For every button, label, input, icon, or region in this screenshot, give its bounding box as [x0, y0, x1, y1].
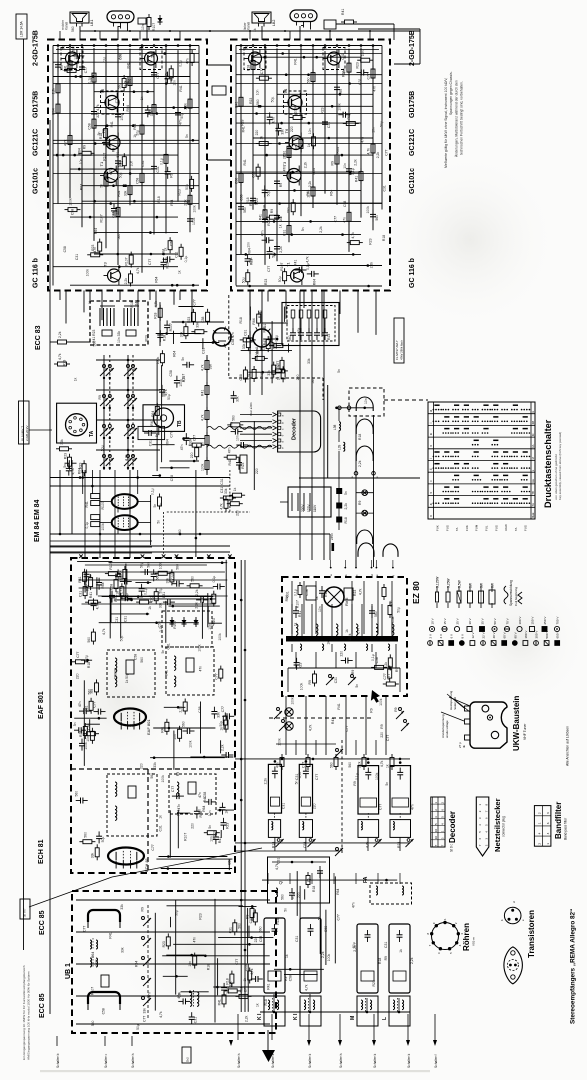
svg-text:5n: 5n: [344, 491, 348, 495]
svg-text:R107: R107: [152, 23, 156, 31]
svg-text:220: 220: [235, 510, 239, 516]
svg-text:C58: C58: [240, 194, 244, 200]
svg-text:LB1: LB1: [90, 20, 94, 26]
svg-text:C77: C77: [333, 216, 337, 222]
svg-text:2,2k: 2,2k: [303, 161, 307, 168]
svg-text:R41: R41: [228, 459, 232, 465]
svg-text:250 V: 250 V: [543, 617, 547, 625]
svg-text:C58: C58: [169, 370, 173, 376]
svg-text:C77: C77: [315, 774, 319, 780]
svg-text:R41: R41: [218, 999, 222, 1005]
svg-text:R107: R107: [169, 323, 173, 331]
svg-text:a: a: [429, 433, 433, 435]
svg-text:560: 560: [375, 215, 379, 221]
svg-text:10n: 10n: [208, 810, 212, 816]
svg-text:R9: R9: [170, 173, 174, 177]
svg-text:R107: R107: [100, 214, 104, 222]
svg-text:100k: 100k: [101, 523, 105, 531]
svg-text:1k: 1k: [148, 606, 152, 610]
svg-text:2 V: 2 V: [429, 634, 433, 639]
svg-text:V01-m: V01-m: [472, 937, 476, 946]
svg-text:220: 220: [290, 126, 294, 132]
svg-text:50µ: 50µ: [241, 277, 245, 283]
svg-text:R23: R23: [177, 189, 181, 195]
svg-text:2,2k: 2,2k: [263, 778, 267, 785]
svg-text:R18: R18: [239, 317, 243, 323]
svg-text:R107: R107: [102, 153, 106, 161]
svg-text:47n: 47n: [177, 993, 181, 999]
svg-text:1k: 1k: [285, 954, 289, 958]
svg-text:R41: R41: [203, 796, 207, 802]
svg-text:2,2k: 2,2k: [52, 88, 56, 95]
svg-text:2,2k: 2,2k: [370, 262, 374, 269]
svg-text:10n: 10n: [74, 54, 78, 60]
svg-text:T2: T2: [61, 45, 66, 50]
svg-text:33k: 33k: [224, 488, 228, 494]
svg-text:R9: R9: [128, 79, 132, 83]
svg-text:47n: 47n: [361, 137, 365, 143]
svg-text:100k: 100k: [95, 959, 99, 967]
svg-text:R9: R9: [98, 395, 102, 399]
svg-text:2: 2: [538, 812, 542, 814]
svg-text:100k: 100k: [161, 775, 165, 783]
svg-text:Schalter c: Schalter c: [104, 1053, 108, 1068]
svg-text:2: 2: [538, 843, 542, 845]
svg-text:Kanal: Kanal: [247, 22, 251, 30]
svg-text:4 V: 4 V: [439, 634, 443, 639]
svg-text:C58: C58: [170, 475, 174, 481]
svg-text:C31: C31: [75, 254, 79, 260]
svg-text:1k: 1k: [345, 629, 349, 633]
svg-text:KI: KI: [531, 433, 535, 436]
svg-text:R23: R23: [342, 71, 346, 77]
svg-text:4,7k: 4,7k: [380, 760, 384, 767]
svg-text:C31: C31: [103, 56, 107, 62]
svg-text:245V: 245V: [330, 533, 334, 540]
svg-text:a: a: [429, 503, 433, 505]
svg-text:Q: Q: [278, 881, 283, 885]
svg-text:TA: TA: [531, 503, 535, 506]
svg-text:50µ: 50µ: [271, 97, 275, 103]
svg-text:R41: R41: [127, 62, 131, 68]
svg-text:R64: R64: [336, 888, 340, 894]
svg-text:50µ: 50µ: [278, 276, 282, 282]
svg-text:R9: R9: [394, 707, 398, 711]
svg-text:5n: 5n: [294, 781, 298, 785]
svg-text:4,7k: 4,7k: [159, 1011, 163, 1018]
svg-text:560: 560: [93, 341, 97, 347]
svg-text:47n: 47n: [180, 444, 184, 450]
svg-text:2,2k: 2,2k: [226, 987, 230, 994]
svg-text:4,7k: 4,7k: [220, 503, 224, 510]
svg-text:C77: C77: [193, 299, 197, 305]
svg-text:R23: R23: [353, 590, 357, 596]
svg-text:R23: R23: [258, 312, 262, 318]
svg-text:C31: C31: [249, 257, 253, 263]
svg-text:R23: R23: [356, 62, 360, 68]
svg-text:10n: 10n: [371, 127, 375, 133]
svg-text:47n: 47n: [148, 992, 152, 998]
svg-text:C58 47n: C58 47n: [231, 332, 235, 345]
svg-text:0,1µ: 0,1µ: [160, 158, 164, 165]
svg-text:C58: C58: [136, 178, 140, 184]
svg-text:R41: R41: [294, 260, 298, 266]
svg-text:C77: C77: [83, 926, 87, 932]
svg-text:Bandfilter: Bandfilter: [554, 802, 563, 839]
svg-text:Schalter h: Schalter h: [131, 1053, 135, 1068]
svg-text:560: 560: [374, 611, 378, 617]
svg-text:GC 116 b: GC 116 b: [33, 258, 40, 288]
svg-text:10n: 10n: [247, 242, 251, 248]
svg-text:R18: R18: [382, 235, 386, 241]
svg-text:R64: R64: [313, 279, 317, 285]
svg-text:560: 560: [156, 575, 160, 581]
svg-text:C31: C31: [175, 251, 179, 257]
svg-text:560: 560: [120, 575, 124, 581]
svg-text:220: 220: [255, 130, 259, 136]
svg-text:C77: C77: [337, 914, 341, 920]
svg-text:R18: R18: [347, 113, 351, 119]
svg-text:47n: 47n: [228, 447, 232, 453]
svg-text:33k: 33k: [158, 602, 162, 608]
svg-text:2,2k: 2,2k: [179, 706, 183, 713]
svg-text:C31: C31: [167, 643, 171, 649]
svg-text:10: 10: [434, 829, 438, 833]
svg-text:47n: 47n: [179, 119, 183, 125]
svg-text:6: 6: [546, 822, 550, 824]
svg-text:R23: R23: [199, 913, 203, 919]
svg-text:Schalter h: Schalter h: [237, 1053, 241, 1068]
svg-text:FUK: FUK: [436, 525, 440, 531]
svg-text:5n: 5n: [73, 722, 77, 726]
svg-text:50µ: 50µ: [267, 191, 271, 197]
svg-text:220: 220: [96, 112, 100, 118]
svg-text:5n: 5n: [153, 504, 157, 508]
svg-text:C77: C77: [156, 72, 160, 78]
svg-text:C31: C31: [358, 78, 362, 84]
svg-text:560: 560: [238, 923, 242, 929]
svg-text:5n: 5n: [159, 503, 163, 507]
svg-text:K I: K I: [293, 1013, 299, 1020]
svg-text:1k: 1k: [277, 376, 281, 380]
svg-text:560: 560: [91, 1021, 95, 1027]
svg-text:R9: R9: [83, 145, 87, 149]
svg-text:10n: 10n: [208, 624, 212, 630]
svg-text:R64: R64: [285, 595, 289, 601]
svg-text:R9: R9: [268, 340, 272, 344]
svg-text:2,2k: 2,2k: [410, 957, 414, 964]
svg-text:220: 220: [76, 673, 80, 679]
svg-text:33k: 33k: [124, 190, 128, 196]
svg-text:2,2k: 2,2k: [248, 373, 252, 380]
svg-text:50µ: 50µ: [397, 607, 401, 613]
svg-text:220: 220: [340, 651, 344, 657]
svg-text:220: 220: [190, 452, 194, 458]
svg-text:R41: R41: [201, 390, 205, 396]
svg-text:R107: R107: [213, 830, 217, 838]
svg-text:1k: 1k: [130, 724, 134, 728]
svg-text:C77: C77: [385, 149, 389, 155]
svg-text:4,7k: 4,7k: [96, 603, 100, 610]
svg-text:10n: 10n: [235, 435, 239, 441]
svg-text:0,1µ: 0,1µ: [306, 263, 310, 270]
svg-text:FL M737 AM-7: FL M737 AM-7: [395, 340, 399, 360]
svg-text:33k: 33k: [236, 396, 240, 402]
svg-text:10n: 10n: [86, 736, 90, 742]
svg-text:R41: R41: [78, 576, 82, 582]
svg-text:C77: C77: [221, 706, 225, 712]
svg-text:C58: C58: [113, 673, 117, 679]
svg-text:a: a: [429, 410, 433, 412]
svg-text:2,2k: 2,2k: [195, 589, 199, 596]
svg-text:R23: R23: [241, 462, 245, 468]
svg-text:100k: 100k: [86, 269, 90, 277]
svg-text:1k: 1k: [260, 136, 264, 140]
svg-text:C77: C77: [76, 651, 80, 657]
svg-text:33k: 33k: [143, 1008, 147, 1014]
svg-text:110V: 110V: [313, 504, 317, 512]
svg-text:L38: L38: [333, 424, 337, 430]
svg-text:4,7k: 4,7k: [136, 267, 140, 274]
svg-text:25 V: 25 V: [456, 618, 460, 624]
svg-text:50µ: 50µ: [118, 173, 122, 179]
svg-text:10n 33k: 10n 33k: [117, 331, 121, 343]
svg-text:R64: R64: [162, 249, 166, 255]
svg-text:2,2k: 2,2k: [245, 1015, 249, 1022]
svg-text:R23: R23: [321, 107, 325, 113]
svg-text:St Vr7: St Vr7: [23, 908, 27, 917]
svg-text:T6: T6: [284, 128, 289, 133]
svg-text:MuE: MuE: [531, 512, 535, 518]
svg-text:50µ: 50µ: [380, 121, 384, 127]
svg-text:50µ: 50µ: [136, 1024, 140, 1030]
svg-text:R18: R18: [378, 958, 382, 964]
svg-text:C77: C77: [357, 628, 361, 634]
svg-text:100k: 100k: [291, 697, 295, 705]
svg-text:5n: 5n: [63, 464, 67, 468]
svg-text:2,2k: 2,2k: [321, 951, 325, 958]
svg-text:0,1µ: 0,1µ: [85, 522, 89, 529]
svg-text:560: 560: [348, 762, 352, 768]
svg-text:33k: 33k: [195, 322, 199, 328]
svg-text:Dr2: Dr2: [186, 1057, 190, 1062]
svg-text:K I: K I: [257, 1013, 263, 1020]
svg-text:1k: 1k: [278, 224, 282, 228]
svg-text:560: 560: [117, 234, 121, 240]
svg-text:ECC 85: ECC 85: [39, 910, 46, 935]
svg-text:47kV 290k flach: 47kV 290k flach: [400, 340, 404, 360]
svg-text:R9: R9: [351, 670, 355, 674]
svg-text:R9: R9: [187, 200, 191, 204]
svg-text:C31: C31: [115, 617, 119, 623]
svg-text:C58: C58: [391, 616, 395, 622]
svg-text:10n: 10n: [256, 90, 260, 96]
svg-text:0,25W: 0,25W: [447, 578, 451, 588]
svg-text:R64: R64: [94, 228, 98, 234]
svg-text:10n: 10n: [308, 128, 312, 134]
svg-text:560: 560: [197, 809, 201, 815]
svg-text:Schalter k: Schalter k: [407, 1053, 411, 1068]
svg-text:R41: R41: [341, 9, 345, 15]
svg-text:C31: C31: [384, 942, 388, 948]
svg-text:2,2k: 2,2k: [376, 152, 380, 159]
svg-text:220: 220: [255, 468, 259, 474]
svg-text:4,7k: 4,7k: [365, 841, 369, 848]
svg-text:R64: R64: [249, 200, 253, 206]
svg-text:47n: 47n: [372, 86, 376, 92]
svg-text:UB 1: UB 1: [65, 963, 72, 979]
svg-text:R64: R64: [151, 411, 155, 417]
svg-text:R41: R41: [259, 214, 263, 220]
svg-text:2,2k: 2,2k: [344, 503, 348, 510]
svg-text:0,1µ: 0,1µ: [88, 77, 92, 84]
svg-text:4,7k: 4,7k: [304, 984, 308, 991]
svg-text:100k: 100k: [189, 740, 193, 748]
svg-text:0,1µ: 0,1µ: [291, 892, 295, 899]
svg-text:150 V: 150 V: [531, 617, 535, 625]
svg-text:R18: R18: [312, 886, 316, 892]
svg-text:560: 560: [150, 773, 154, 779]
svg-text:C31: C31: [220, 478, 224, 484]
svg-text:100k: 100k: [218, 633, 222, 641]
svg-text:33k: 33k: [165, 578, 169, 584]
svg-text:FUS: FUS: [494, 525, 498, 531]
svg-text:M: M: [350, 1016, 356, 1020]
svg-text:Coil beginning: Coil beginning: [514, 587, 518, 606]
svg-text:R64: R64: [252, 318, 256, 324]
svg-text:4,7k: 4,7k: [124, 454, 128, 461]
svg-text:C77: C77: [386, 735, 390, 741]
svg-text:Transistoren: Transistoren: [527, 910, 536, 958]
svg-text:10n: 10n: [146, 55, 150, 61]
svg-text:R23: R23: [78, 462, 82, 468]
svg-text:R18: R18: [154, 312, 158, 318]
svg-text:50µ: 50µ: [272, 252, 276, 258]
svg-text:100k: 100k: [278, 738, 282, 746]
svg-text:100k: 100k: [69, 198, 73, 206]
svg-text:C31: C31: [282, 803, 286, 809]
svg-text:R23: R23: [226, 823, 230, 829]
svg-text:0,1µ: 0,1µ: [184, 256, 188, 263]
svg-text:C58: C58: [375, 657, 379, 663]
svg-text:C77: C77: [171, 786, 175, 792]
svg-text:FUL: FUL: [485, 525, 489, 531]
svg-text:C58: C58: [88, 123, 92, 129]
svg-text:R107: R107: [125, 257, 129, 265]
svg-text:Rö 5: Rö 5: [344, 597, 349, 606]
svg-text:C31: C31: [202, 348, 206, 354]
svg-text:C58: C58: [71, 209, 75, 215]
svg-text:T4: T4: [283, 88, 288, 93]
svg-text:1k: 1k: [294, 622, 298, 626]
svg-text:R41: R41: [331, 718, 335, 724]
svg-text:560: 560: [140, 657, 144, 663]
svg-text:4,7k: 4,7k: [358, 588, 362, 595]
svg-text:R23: R23: [264, 279, 268, 285]
svg-text:4,7k: 4,7k: [201, 414, 205, 421]
svg-text:C31: C31: [295, 936, 299, 942]
svg-text:40 V: 40 V: [492, 632, 496, 638]
svg-text:4,7k: 4,7k: [71, 468, 75, 475]
svg-text:R64: R64: [247, 248, 251, 254]
svg-text:5n: 5n: [355, 684, 359, 688]
svg-text:R64: R64: [133, 123, 137, 129]
svg-text:C77: C77: [148, 259, 152, 265]
svg-text:33k: 33k: [209, 364, 213, 370]
svg-text:C58: C58: [343, 201, 347, 207]
svg-text:560: 560: [330, 762, 334, 768]
svg-text:R41: R41: [235, 101, 239, 107]
svg-text:10n: 10n: [173, 734, 177, 740]
svg-text:33k: 33k: [150, 111, 154, 117]
svg-text:ECH 81: ECH 81: [38, 839, 45, 864]
svg-text:0,1µ: 0,1µ: [144, 588, 148, 595]
svg-text:C77: C77: [387, 674, 391, 680]
svg-text:R41: R41: [242, 126, 246, 132]
svg-text:180 V: 180 V: [524, 631, 528, 639]
svg-text:T1: T1: [286, 262, 291, 267]
svg-text:10n: 10n: [364, 398, 368, 404]
svg-text:47n: 47n: [192, 937, 196, 943]
svg-text:R18: R18: [87, 662, 91, 668]
svg-text:R9: R9: [370, 708, 374, 712]
svg-text:47n: 47n: [193, 619, 197, 625]
svg-text:C77: C77: [143, 1016, 147, 1022]
svg-text:T9: T9: [244, 45, 249, 50]
svg-text:100k: 100k: [192, 205, 196, 213]
svg-text:R18: R18: [157, 196, 161, 202]
svg-text:C31: C31: [194, 1017, 198, 1023]
svg-text:Röhren: Röhren: [462, 923, 471, 951]
svg-text:C31: C31: [220, 487, 224, 493]
svg-text:15 V: 15 V: [443, 618, 447, 624]
svg-text:R9: R9: [353, 781, 357, 785]
svg-text:50µ: 50µ: [159, 588, 163, 594]
svg-text:EAF 801: EAF 801: [38, 691, 45, 719]
svg-text:R9: R9: [140, 907, 144, 911]
svg-text:560: 560: [259, 926, 263, 932]
svg-text:1k: 1k: [88, 300, 92, 304]
svg-text:R107: R107: [296, 600, 300, 608]
svg-text:0,1µ: 0,1µ: [276, 364, 280, 371]
svg-text:R64: R64: [79, 184, 83, 190]
svg-text:VHF Tuner: VHF Tuner: [523, 723, 527, 740]
svg-text:2,2k: 2,2k: [358, 460, 362, 467]
svg-text:C58: C58: [198, 706, 202, 712]
svg-text:30 V: 30 V: [468, 618, 472, 624]
svg-text:33k: 33k: [60, 439, 64, 445]
svg-text:560: 560: [191, 576, 195, 582]
svg-text:50µ: 50µ: [119, 636, 123, 642]
svg-text:Decoder: Decoder: [292, 417, 298, 440]
svg-text:L: L: [382, 1017, 388, 1020]
svg-text:R18: R18: [260, 372, 264, 378]
svg-text:100 V: 100 V: [518, 617, 522, 625]
svg-text:2,2k: 2,2k: [308, 181, 312, 188]
svg-text:560: 560: [71, 46, 75, 52]
svg-text:100k: 100k: [201, 463, 205, 471]
svg-text:KB: KB: [531, 421, 535, 425]
svg-text:2-GB-2C2V: 2-GB-2C2V: [25, 425, 29, 441]
svg-text:ECC 83: ECC 83: [35, 325, 42, 350]
svg-text:EZ 80: EZ 80: [411, 581, 421, 604]
svg-text:33k: 33k: [114, 667, 118, 673]
svg-text:50µ: 50µ: [167, 394, 171, 400]
svg-text:R41: R41: [179, 85, 183, 91]
svg-text:3: 3: [546, 812, 550, 814]
svg-text:300 V: 300 V: [535, 631, 539, 639]
svg-text:St 0 c: St 0 c: [450, 843, 454, 852]
